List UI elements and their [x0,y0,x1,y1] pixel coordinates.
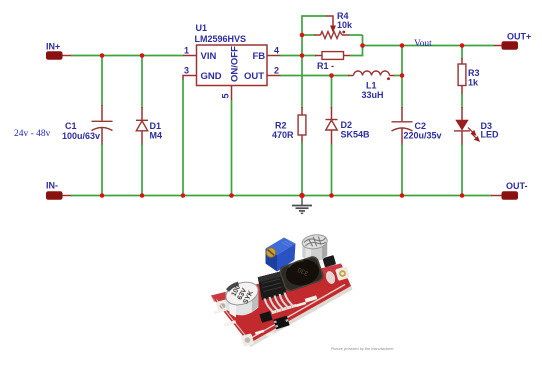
svg-text:1k: 1k [468,78,479,88]
wire D2 to bottom [331,144,333,196]
wire D1 to bottom [141,144,143,196]
junction ground node [299,193,304,198]
wire C1 drop [101,56,103,107]
svg-text:D2: D2 [341,120,353,130]
wire R4 wiper loop [302,16,327,35]
IC LM2596S [258,271,287,301]
junction L1 right [400,73,405,78]
svg-text:470R: 470R [272,130,294,140]
svg-text:IN-: IN- [46,181,58,191]
svg-text:24v - 48v: 24v - 48v [14,129,51,139]
pin 5 [231,86,233,102]
wire D1 drop [141,56,143,109]
IC U1 LM2596HVS [195,23,268,86]
board [211,264,351,344]
junction ON/OFF pin bottom [229,193,234,198]
wire bottom rail [71,195,492,197]
svg-text:10k: 10k [337,20,353,30]
wire top input rail [71,55,184,57]
svg-text:LM2596HVS: LM2596HVS [195,34,247,44]
svg-text:Picture provided by the manufa: Picture provided by the manufacturer [331,347,394,351]
junction D2 bottom [329,193,334,198]
svg-text:ON/OFF: ON/OFF [230,46,241,82]
svg-text:3: 3 [184,66,189,76]
bottom corner pad with hole [241,333,255,347]
junction C2 bottom [400,193,405,198]
svg-text:D1: D1 [150,121,162,131]
junction D2 top [329,73,334,78]
resistor R3 1k [458,58,479,95]
small black component 2 [273,316,289,330]
wire FB to node [280,55,302,57]
pin 2 [267,75,281,77]
LED D3 [454,107,499,145]
potentiometer R4 10k [302,11,363,46]
diode D2 SK54B [326,107,371,145]
capacitor bottom (silver with label) [223,278,261,317]
pin 1 [183,55,197,57]
wire FB node vertical [301,35,303,56]
wire C2 to bottom [401,144,403,196]
junction C1 top [100,53,105,58]
svg-text:OUT-: OUT- [506,181,528,191]
junction FB node [300,53,305,58]
capacitor C1 [62,105,113,145]
wire R3 drop [461,46,463,60]
svg-text:5: 5 [221,93,231,98]
pin 4 [267,55,281,57]
junction D3 bottom [460,193,465,198]
svg-text:SK54B: SK54B [341,130,371,140]
svg-text:R1 -: R1 - [317,61,334,71]
smd diode behind inductor [322,255,336,267]
board side edges [211,296,252,348]
junction Vout left [400,43,405,48]
svg-text:2: 2 [274,66,279,76]
diode D1 [136,107,162,145]
svg-text:100u/63v: 100u/63v [62,131,100,141]
white pad top right with hole [335,266,350,281]
junction GND pin bottom [181,193,186,198]
wire R2 drop [301,56,303,109]
terminal OUT+ [494,32,531,50]
junction R1 right [360,43,365,48]
svg-text:220u/35v: 220u/35v [404,131,442,141]
capacitor C2 220u/35v [392,107,442,145]
junction R3 top [460,43,465,48]
junction R4 left [300,33,305,38]
wire GND pin to bottom rail [182,79,184,196]
svg-text:M4: M4 [150,131,163,141]
svg-text:IN+: IN+ [46,42,60,52]
svg-text:C2: C2 [415,121,427,131]
svg-text:OUT+: OUT+ [507,32,531,42]
junction D1 top [140,53,145,58]
svg-text:OUT: OUT [244,71,264,82]
terminal OUT- [491,181,528,200]
svg-text:R3: R3 [468,68,480,78]
wire C2 drop [401,76,403,109]
svg-text:VIN: VIN [201,51,217,62]
svg-text:C1: C1 [65,121,77,131]
ground [292,196,312,213]
svg-text:R2: R2 [275,121,287,131]
wire Vout rail [363,45,495,47]
wire D3 to bottom [461,144,463,196]
pin 3 [183,76,197,81]
small black component 1 [259,311,272,323]
terminal IN+ [46,42,72,60]
wire ON/OFF pin to bottom rail [231,100,233,196]
capacitor top (silver) [301,233,328,262]
wire R3 to D3 [461,94,463,108]
left corner pad with hole [216,299,230,313]
svg-text:1: 1 [184,46,189,56]
terminal IN- [46,181,72,200]
resistor R2 470R [272,107,306,144]
IC pins [265,293,293,312]
svg-text:U1: U1 [196,23,208,33]
inductor L1 33uH [332,71,403,100]
wire R2 to bottom [301,143,303,196]
svg-text:33uH: 33uH [362,90,384,100]
svg-text:4: 4 [274,46,279,56]
photo of LM2596 module [211,233,353,347]
wire Vout drop [401,46,403,76]
svg-text:L1: L1 [366,81,377,91]
svg-text:FB: FB [253,51,266,62]
silkscreen border line [252,285,345,338]
wire D2 drop [331,76,333,109]
svg-text:LED: LED [481,130,500,140]
trimpot (blue) [266,238,296,272]
resistor R1 [302,46,363,72]
wire C1 to bottom [101,144,103,196]
inductor [278,255,325,293]
small silkscreen dashes [214,261,326,337]
junction D1 bottom [140,193,145,198]
white circle silkscreen [324,270,336,285]
svg-text:GND: GND [201,71,222,82]
junction C1 bottom [100,193,105,198]
wire OUT to L1 [280,75,332,77]
svg-text:Vout: Vout [414,39,432,49]
board highlight [211,264,344,303]
